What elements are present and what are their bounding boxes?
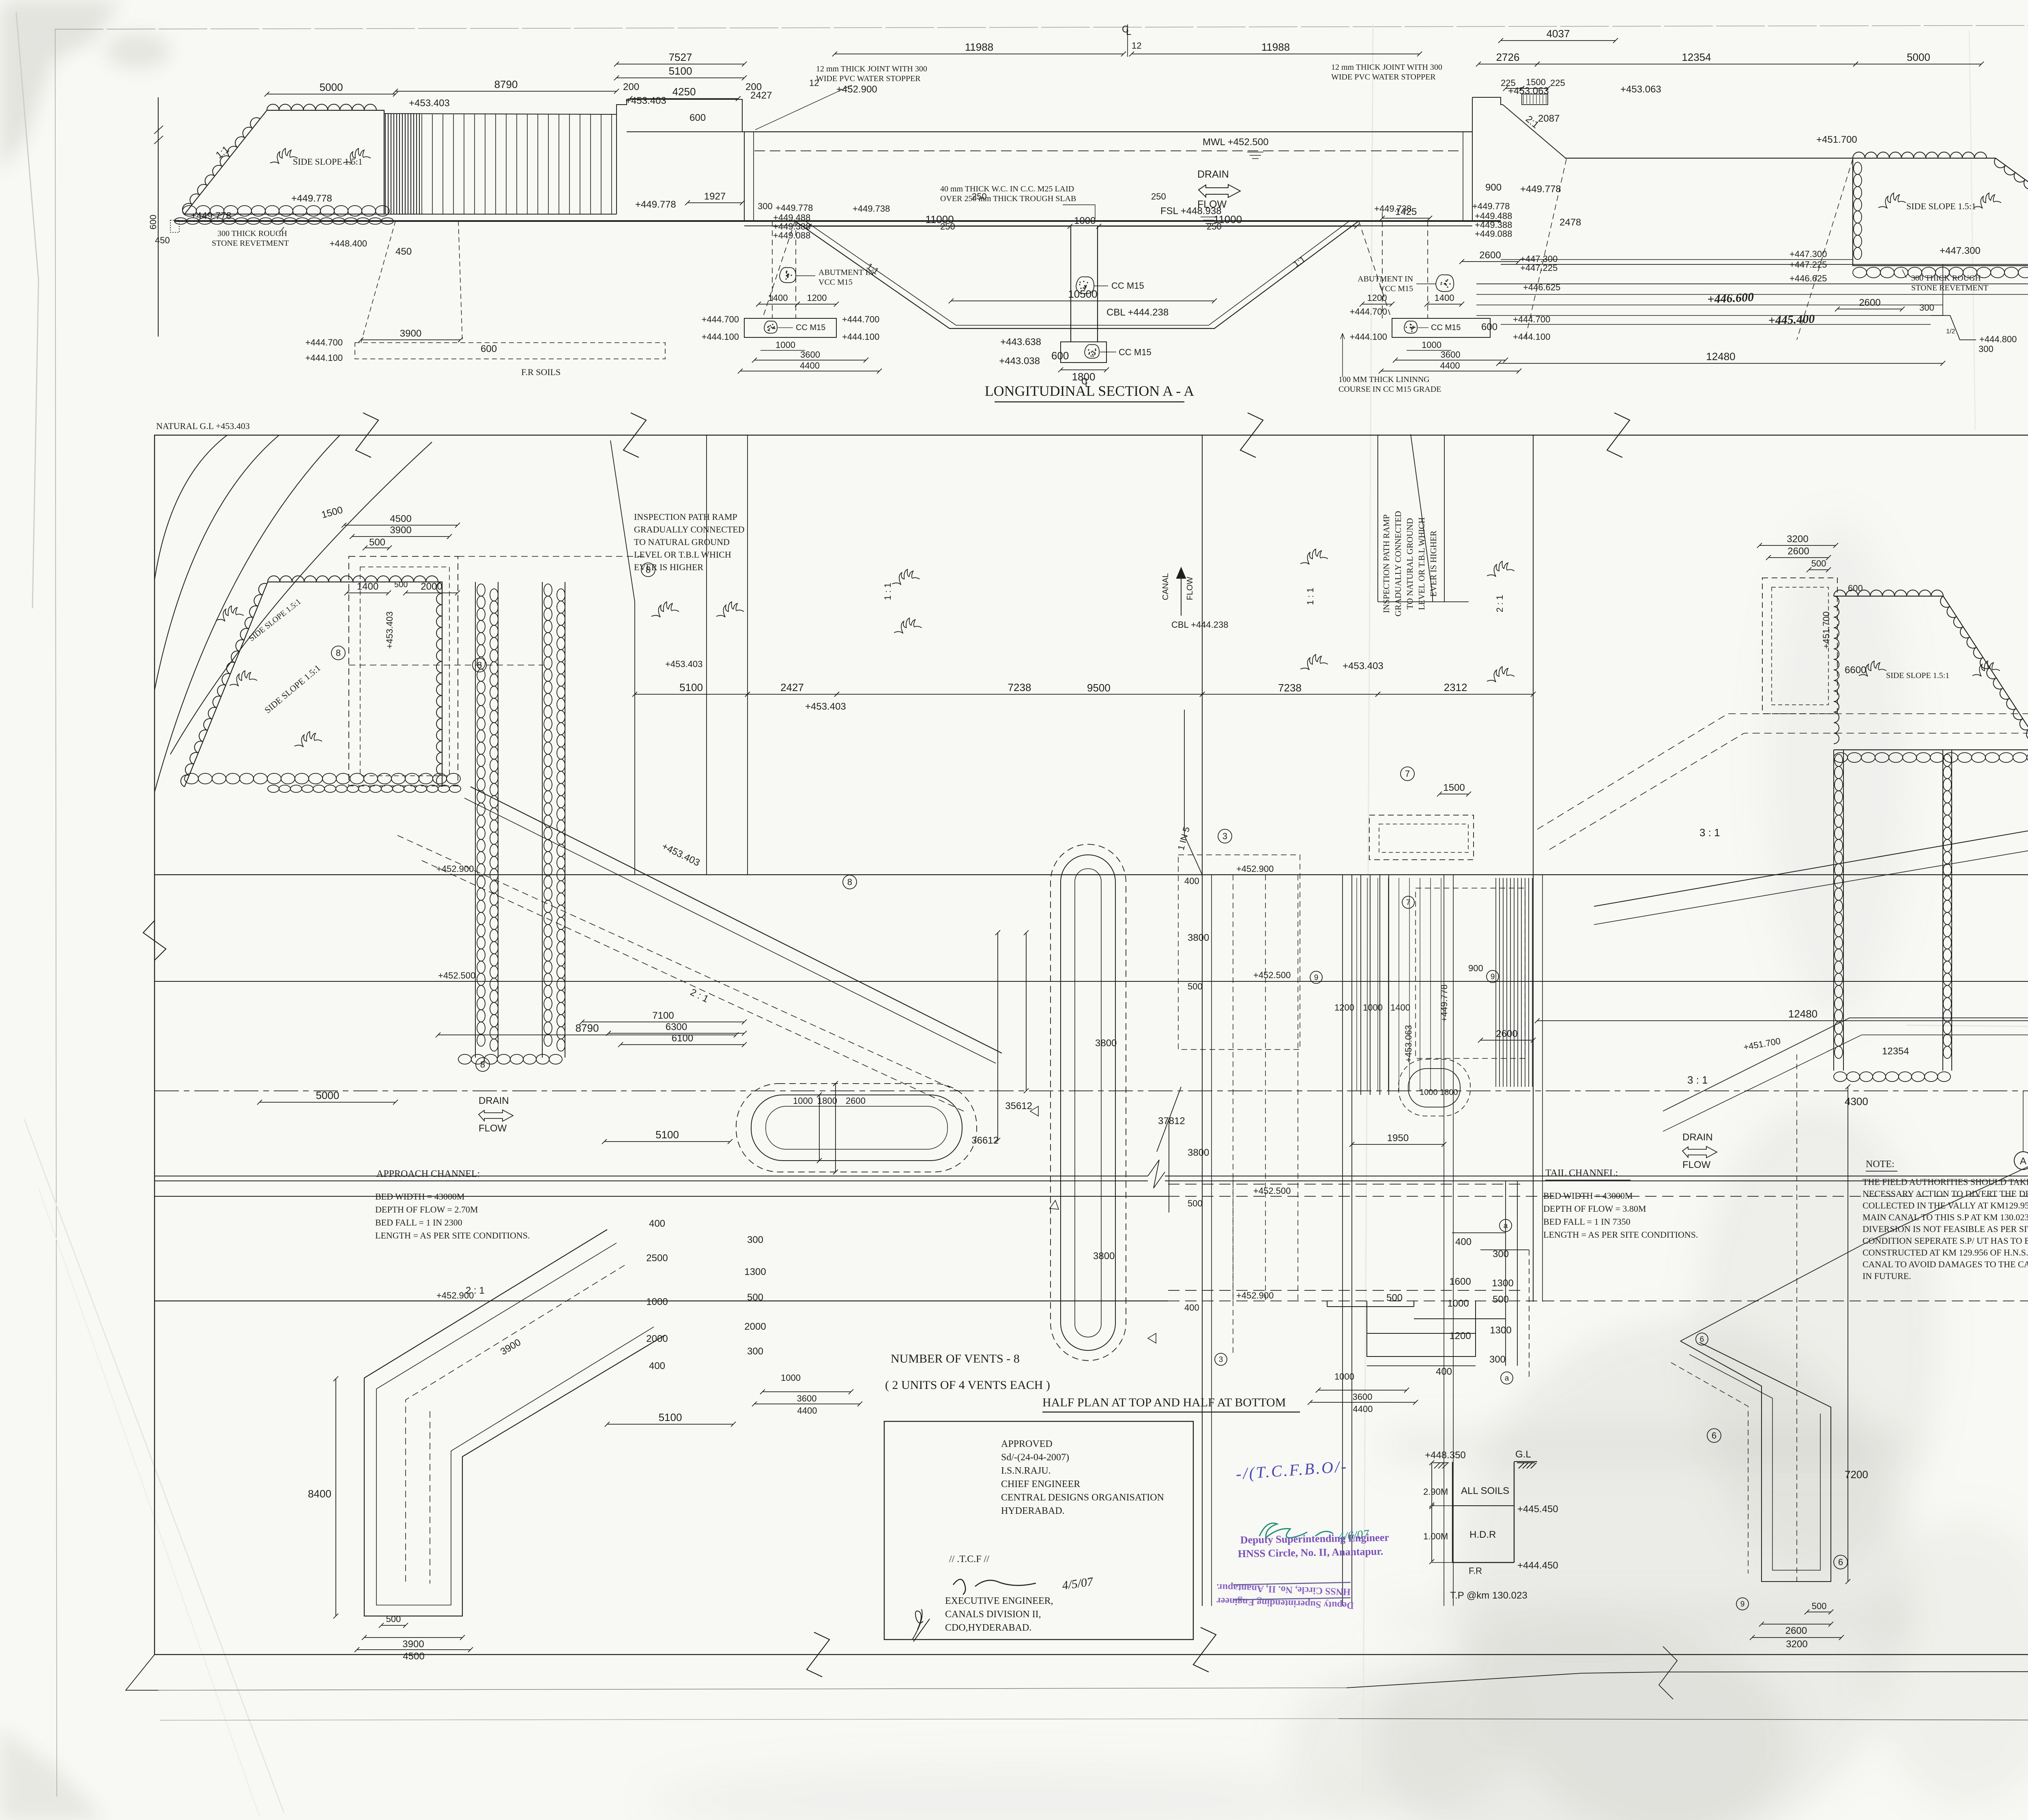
svg-text:11000: 11000 bbox=[925, 213, 954, 225]
svg-text:1000: 1000 bbox=[1074, 215, 1096, 226]
svg-text:1300: 1300 bbox=[1492, 1278, 1513, 1289]
plan dim 5000 left bbox=[260, 1102, 395, 1103]
svg-text:1200: 1200 bbox=[1334, 1002, 1354, 1013]
svg-text:6300: 6300 bbox=[666, 1022, 687, 1032]
svg-text:BED WIDTH = 43000M: BED WIDTH = 43000M bbox=[375, 1191, 464, 1202]
svg-text:1000: 1000 bbox=[776, 340, 795, 350]
svg-text:400: 400 bbox=[649, 1361, 665, 1371]
svg-text:2000: 2000 bbox=[646, 1333, 668, 1344]
svg-text:+444.700: +444.700 bbox=[702, 314, 739, 324]
svg-text:+447.225: +447.225 bbox=[1520, 263, 1558, 273]
svg-text:LENGTH = AS PER SITE CONDITION: LENGTH = AS PER SITE CONDITIONS. bbox=[375, 1230, 530, 1241]
svg-text:+452.900: +452.900 bbox=[1236, 1290, 1274, 1301]
section dim 7527 bbox=[617, 64, 744, 64]
svg-text:+452.900: +452.900 bbox=[436, 864, 474, 874]
svg-text:500: 500 bbox=[1811, 558, 1826, 569]
plan right upper revetment trapezoid bbox=[1834, 596, 2028, 750]
svg-text:6100: 6100 bbox=[672, 1033, 693, 1044]
svg-text:3600: 3600 bbox=[800, 350, 820, 360]
svg-text:COURSE IN CC M15 GRADE: COURSE IN CC M15 GRADE bbox=[1338, 385, 1441, 394]
plan right dashed box bbox=[1762, 578, 1837, 714]
svg-text:IN FUTURE.: IN FUTURE. bbox=[1863, 1271, 1911, 1281]
svg-text:2600: 2600 bbox=[1785, 1625, 1807, 1636]
svg-text:3 : 1: 3 : 1 bbox=[1687, 1074, 1708, 1086]
svg-text:1300: 1300 bbox=[1490, 1325, 1511, 1336]
svg-text:L: L bbox=[1126, 26, 1131, 37]
section left reference line bbox=[158, 97, 159, 337]
plan bottom-left wing wall bbox=[364, 1230, 665, 1616]
svg-text:MWL +452.500: MWL +452.500 bbox=[1203, 137, 1269, 148]
svg-text:400: 400 bbox=[649, 1218, 665, 1229]
section left step block bbox=[617, 99, 744, 214]
svg-text:3800: 3800 bbox=[1188, 932, 1209, 943]
svg-text:8: 8 bbox=[477, 660, 482, 670]
svg-text:CC M15: CC M15 bbox=[1431, 323, 1461, 332]
svg-text:1800: 1800 bbox=[1440, 1088, 1458, 1097]
svg-text:INSPECTION PATH RAMP: INSPECTION PATH RAMP bbox=[634, 512, 737, 522]
svg-text:1 : 1: 1 : 1 bbox=[883, 583, 893, 600]
section right toe notch bbox=[1931, 315, 1976, 340]
svg-text:EXECUTIVE ENGINEER,: EXECUTIVE ENGINEER, bbox=[945, 1596, 1053, 1606]
svg-text:CC M15: CC M15 bbox=[1111, 281, 1144, 291]
svg-text:37812: 37812 bbox=[1158, 1116, 1185, 1127]
svg-text:40 mm THICK W.C. IN C.C. M25 L: 40 mm THICK W.C. IN C.C. M25 LAID bbox=[940, 185, 1074, 193]
svg-text:1000: 1000 bbox=[1334, 1371, 1354, 1382]
svg-text:7527: 7527 bbox=[669, 51, 692, 63]
section dim 10500 bbox=[951, 300, 1214, 301]
plan left wing bottom stone chain bbox=[185, 773, 198, 784]
section left embankment revetment trapezoid bbox=[185, 110, 384, 214]
svg-text:ALL SOILS: ALL SOILS bbox=[1461, 1485, 1509, 1496]
svg-text:+449.778: +449.778 bbox=[1520, 184, 1561, 195]
svg-text:I.S.N.RAJU.: I.S.N.RAJU. bbox=[1001, 1466, 1051, 1476]
svg-text:12354: 12354 bbox=[1882, 1046, 1909, 1057]
svg-text:1400: 1400 bbox=[1435, 293, 1454, 303]
approval box bbox=[884, 1421, 1193, 1640]
svg-text:GRADUALLY CONNECTED: GRADUALLY CONNECTED bbox=[1393, 511, 1403, 616]
svg-text:500: 500 bbox=[1493, 1294, 1509, 1305]
svg-text:3200: 3200 bbox=[1786, 1639, 1807, 1650]
svg-text:600: 600 bbox=[1848, 583, 1863, 593]
svg-text:MAIN CANAL TO THIS S.P AT KM 1: MAIN CANAL TO THIS S.P AT KM 130.023.IF bbox=[1863, 1212, 2028, 1222]
svg-text:300: 300 bbox=[1979, 344, 1994, 354]
section dim 5100 bbox=[617, 77, 744, 78]
svg-text:300: 300 bbox=[1493, 1249, 1509, 1260]
svg-text:CENTRAL DESIGNS ORGANISATION: CENTRAL DESIGNS ORGANISATION bbox=[1001, 1492, 1164, 1503]
section dim 8790 bbox=[395, 91, 617, 92]
svg-text:3200: 3200 bbox=[1787, 534, 1808, 545]
section centerline mark bbox=[1127, 24, 1128, 57]
plan vertical revetment band B bbox=[542, 582, 543, 1058]
svg-text:+444.100: +444.100 bbox=[1513, 332, 1550, 342]
svg-text:BED WIDTH = 43000M: BED WIDTH = 43000M bbox=[1543, 1191, 1633, 1201]
plan horizontal line +452.500 upper bbox=[155, 981, 2028, 982]
plan right diagonal 3:1 upper bbox=[1537, 714, 2028, 829]
svg-text:9: 9 bbox=[1491, 973, 1495, 981]
svg-text:35612: 35612 bbox=[1005, 1101, 1032, 1112]
plan right horizontal pier stadium bbox=[1399, 1059, 1470, 1116]
svg-text:F.R SOILS: F.R SOILS bbox=[521, 367, 561, 377]
svg-text:DRAIN: DRAIN bbox=[1682, 1132, 1713, 1143]
svg-text:450: 450 bbox=[155, 235, 170, 245]
svg-text:450: 450 bbox=[395, 246, 412, 257]
svg-text:LEVEL OR T.B.L WHICH: LEVEL OR T.B.L WHICH bbox=[1417, 517, 1426, 610]
svg-text:2600: 2600 bbox=[1479, 250, 1501, 261]
svg-text:+444.800: +444.800 bbox=[1979, 334, 2017, 344]
svg-text:1200: 1200 bbox=[1449, 1331, 1471, 1341]
section top dims right bbox=[1478, 64, 1537, 64]
svg-text:+449.088: +449.088 bbox=[1475, 229, 1512, 239]
svg-text:1/2: 1/2 bbox=[1946, 328, 1955, 335]
svg-text:4300: 4300 bbox=[1845, 1095, 1868, 1107]
svg-text:1425: 1425 bbox=[1395, 206, 1417, 217]
svg-text:2312: 2312 bbox=[1444, 681, 1467, 693]
crease center vertical bbox=[1363, 24, 1373, 1792]
svg-text:12 mm THICK JOINT WITH 300: 12 mm THICK JOINT WITH 300 bbox=[816, 64, 927, 73]
plan right vertical revetment bands bbox=[1833, 750, 1834, 1071]
plan center trough verticals lower bbox=[1202, 875, 1203, 1606]
svg-text:+449.778: +449.778 bbox=[635, 199, 676, 210]
svg-text:900: 900 bbox=[1468, 963, 1483, 973]
svg-text:3600: 3600 bbox=[797, 1393, 817, 1404]
svg-text:1000: 1000 bbox=[1447, 1298, 1469, 1309]
svg-text:2600: 2600 bbox=[1787, 546, 1809, 557]
svg-text:1000: 1000 bbox=[1420, 1088, 1438, 1097]
section right dowel block bbox=[1522, 94, 1548, 105]
section right diag dashed bbox=[1525, 159, 1566, 340]
svg-text:400: 400 bbox=[1184, 876, 1199, 886]
svg-text:3900: 3900 bbox=[390, 525, 411, 536]
svg-text:5000: 5000 bbox=[1907, 51, 1930, 63]
svg-text:3900: 3900 bbox=[402, 1639, 424, 1650]
svg-text:G.L: G.L bbox=[1515, 1449, 1531, 1460]
svg-text:3600: 3600 bbox=[1353, 1392, 1373, 1402]
svg-text:1200: 1200 bbox=[807, 293, 827, 303]
section trough joint verticals bbox=[744, 132, 745, 221]
svg-text:3800: 3800 bbox=[1188, 1147, 1209, 1158]
svg-text:11988: 11988 bbox=[1261, 41, 1290, 53]
plan left horizontal pier stadium bbox=[736, 1084, 977, 1172]
svg-text:2500: 2500 bbox=[646, 1253, 668, 1264]
svg-text:+444.700: +444.700 bbox=[842, 314, 879, 324]
svg-text:8790: 8790 bbox=[494, 78, 518, 90]
svg-text:4400: 4400 bbox=[800, 361, 820, 371]
svg-text:SIDE SLOPE 1.5:1: SIDE SLOPE 1.5:1 bbox=[1906, 201, 1976, 211]
svg-text:2000: 2000 bbox=[744, 1321, 766, 1332]
svg-text:+448.400: +448.400 bbox=[330, 238, 367, 249]
svg-text:EVER IS HIGHER: EVER IS HIGHER bbox=[634, 562, 703, 572]
svg-text:2427: 2427 bbox=[750, 90, 772, 101]
svg-text:CONSTRUCTED AT KM 129.956 OF H: CONSTRUCTED AT KM 129.956 OF H.N.S.S. MA… bbox=[1863, 1247, 2028, 1258]
svg-text:300: 300 bbox=[758, 201, 773, 211]
svg-text:2 : 1: 2 : 1 bbox=[466, 1285, 485, 1296]
svg-text:+452.500: +452.500 bbox=[438, 970, 475, 981]
svg-text:7: 7 bbox=[1405, 769, 1410, 779]
scan shadow top-left corner bbox=[0, 0, 122, 174]
svg-text:2427: 2427 bbox=[780, 681, 804, 693]
svg-text:2.90M: 2.90M bbox=[1423, 1487, 1448, 1497]
svg-text:CC M15: CC M15 bbox=[1119, 347, 1151, 357]
svg-text:FLOW: FLOW bbox=[479, 1123, 507, 1134]
svg-text:500: 500 bbox=[386, 1614, 401, 1624]
svg-text:LENGTH = AS PER SITE CONDITION: LENGTH = AS PER SITE CONDITIONS. bbox=[1543, 1230, 1698, 1240]
svg-text:300: 300 bbox=[1489, 1354, 1506, 1365]
svg-text:BED FALL = 1 IN 7350: BED FALL = 1 IN 7350 bbox=[1543, 1217, 1631, 1227]
svg-text:300 THICK ROUGH: 300 THICK ROUGH bbox=[217, 229, 287, 238]
svg-text:LEVEL OR T.B.L WHICH: LEVEL OR T.B.L WHICH bbox=[634, 549, 731, 560]
svg-text:400: 400 bbox=[1184, 1303, 1199, 1313]
svg-text:500: 500 bbox=[1188, 1198, 1203, 1208]
plan dim row mid bbox=[635, 694, 748, 695]
svg-text:NUMBER OF VENTS - 8: NUMBER OF VENTS - 8 bbox=[891, 1352, 1020, 1365]
svg-text:+445.450: +445.450 bbox=[1517, 1504, 1558, 1515]
plan dim 8790 bbox=[438, 1034, 736, 1035]
svg-text:7238: 7238 bbox=[1278, 682, 1302, 694]
svg-text:225: 225 bbox=[1550, 78, 1565, 88]
svg-text:+444.450: +444.450 bbox=[1517, 1560, 1558, 1571]
svg-text:+444.700: +444.700 bbox=[1350, 307, 1387, 317]
svg-text:GRADUALLY CONNECTED: GRADUALLY CONNECTED bbox=[634, 524, 745, 534]
svg-text:1000: 1000 bbox=[646, 1296, 668, 1307]
svg-text:1927: 1927 bbox=[704, 191, 726, 202]
svg-text:1.00M: 1.00M bbox=[1423, 1531, 1448, 1541]
svg-text:+453.063: +453.063 bbox=[1403, 1025, 1414, 1062]
plan abutment hatch band bbox=[1495, 878, 1496, 1087]
plan right diagonal wall lower bbox=[1594, 815, 2028, 906]
svg-text:+453.403: +453.403 bbox=[805, 701, 846, 712]
svg-text:2600: 2600 bbox=[1496, 1028, 1517, 1039]
plan bottom center return wall footing steps bbox=[1327, 1301, 1328, 1307]
svg-text:500: 500 bbox=[747, 1292, 763, 1303]
svg-text:600: 600 bbox=[690, 112, 706, 123]
svg-text:+449.778: +449.778 bbox=[191, 210, 232, 221]
svg-text:+453.063: +453.063 bbox=[1620, 84, 1661, 95]
svg-text:2600: 2600 bbox=[1859, 297, 1880, 308]
section dim 11000 left bbox=[809, 226, 1070, 227]
svg-text:+449.778: +449.778 bbox=[1472, 201, 1510, 211]
svg-text:APPROVED: APPROVED bbox=[1001, 1439, 1053, 1449]
svg-text:2087: 2087 bbox=[1538, 113, 1560, 124]
svg-text:+447.300: +447.300 bbox=[1790, 249, 1827, 259]
plan revetment bottom chain bbox=[458, 1054, 471, 1064]
svg-text:+444.100: +444.100 bbox=[1350, 332, 1387, 342]
svg-text:2 : 1: 2 : 1 bbox=[1495, 595, 1505, 612]
svg-text:CANAL: CANAL bbox=[1161, 573, 1170, 600]
plan break zig in pier column bbox=[1157, 1087, 1181, 1213]
svg-text:5100: 5100 bbox=[669, 65, 692, 77]
section right level line +451.700 bbox=[1565, 158, 1853, 159]
svg-text:200: 200 bbox=[623, 82, 639, 92]
svg-text:CC M15: CC M15 bbox=[796, 323, 825, 332]
svg-text:CANALS DIVISION II,: CANALS DIVISION II, bbox=[945, 1609, 1041, 1620]
svg-text:CBL +444.238: CBL +444.238 bbox=[1106, 307, 1169, 318]
section pier footing bbox=[1061, 342, 1106, 363]
section right embankment revetment bbox=[1853, 158, 2028, 266]
svg-text:3: 3 bbox=[1219, 1356, 1223, 1364]
section dim 11988 right bbox=[1132, 54, 1420, 54]
svg-text:7200: 7200 bbox=[1845, 1468, 1868, 1481]
svg-text:300 THICK ROUGH: 300 THICK ROUGH bbox=[1911, 274, 1981, 283]
svg-text:2726: 2726 bbox=[1496, 51, 1520, 63]
svg-text:T.P @km 130.023: T.P @km 130.023 bbox=[1450, 1590, 1527, 1601]
svg-text:+446.625: +446.625 bbox=[1523, 282, 1560, 292]
svg-text:TO NATURAL GROUND: TO NATURAL GROUND bbox=[634, 537, 730, 547]
svg-text:EVER IS HIGHER: EVER IS HIGHER bbox=[1429, 530, 1438, 597]
svg-text:12480: 12480 bbox=[1788, 1008, 1817, 1020]
svg-text:+451.700: +451.700 bbox=[1821, 612, 1831, 649]
svg-text:3900: 3900 bbox=[400, 328, 421, 339]
plan A marker bbox=[2014, 1152, 2028, 1170]
svg-text:900: 900 bbox=[1485, 182, 1502, 193]
svg-text:4400: 4400 bbox=[1353, 1404, 1373, 1414]
section dim 11000 right bbox=[1099, 226, 1357, 227]
svg-text:+444.100: +444.100 bbox=[842, 332, 879, 342]
svg-text:DRAIN: DRAIN bbox=[479, 1095, 509, 1106]
svg-text:NECESSARY ACTION TO DIVERT THE: NECESSARY ACTION TO DIVERT THE DRAIN WAT… bbox=[1863, 1189, 2028, 1199]
svg-text:11988: 11988 bbox=[965, 41, 993, 53]
svg-text:600: 600 bbox=[481, 343, 497, 354]
plan bottom-right wing wall bbox=[1680, 1341, 1831, 1582]
svg-text:TO NATURAL GROUND: TO NATURAL GROUND bbox=[1405, 518, 1415, 609]
svg-text:+443.038: +443.038 bbox=[999, 356, 1040, 367]
svg-text:1400: 1400 bbox=[1390, 1002, 1410, 1013]
svg-text:1000: 1000 bbox=[1422, 340, 1442, 350]
svg-text:250: 250 bbox=[972, 191, 987, 202]
svg-text:ABUTMENT IN: ABUTMENT IN bbox=[1358, 275, 1413, 283]
svg-text:500: 500 bbox=[1386, 1292, 1403, 1303]
svg-text:12: 12 bbox=[1132, 41, 1141, 51]
crease horizontal right bbox=[1906, 1025, 2028, 1032]
svg-text:4400: 4400 bbox=[1440, 361, 1460, 371]
svg-text:1500: 1500 bbox=[1443, 782, 1465, 793]
section dim 12480 bbox=[1499, 363, 1943, 364]
green signature bbox=[1259, 1523, 1333, 1538]
svg-text:1400: 1400 bbox=[768, 293, 788, 303]
svg-text:500: 500 bbox=[369, 537, 385, 548]
plan dims 1950 bbox=[1352, 1144, 1444, 1145]
svg-text:BED FALL = 1 IN 2300: BED FALL = 1 IN 2300 bbox=[375, 1217, 462, 1228]
section main slab line bbox=[174, 220, 1501, 222]
svg-text:225: 225 bbox=[1501, 78, 1516, 88]
svg-text:a: a bbox=[1504, 1222, 1508, 1230]
svg-text:Sd/-(24-04-2007): Sd/-(24-04-2007) bbox=[1001, 1452, 1069, 1463]
svg-text:9: 9 bbox=[1314, 974, 1319, 982]
svg-text:3800: 3800 bbox=[1093, 1251, 1115, 1262]
svg-text:INSPECTION PATH RAMP: INSPECTION PATH RAMP bbox=[1381, 514, 1391, 613]
svg-text:+451.700: +451.700 bbox=[1816, 134, 1857, 145]
svg-text:7100: 7100 bbox=[652, 1010, 674, 1021]
svg-text:WIDE PVC WATER STOPPER: WIDE PVC WATER STOPPER bbox=[816, 74, 921, 83]
svg-text:3800: 3800 bbox=[1095, 1038, 1117, 1049]
svg-text:DEPTH OF FLOW = 2.70M: DEPTH OF FLOW = 2.70M bbox=[375, 1204, 478, 1215]
section dim 4037 bbox=[1501, 40, 1616, 41]
svg-text:12480: 12480 bbox=[1706, 350, 1735, 363]
svg-text:1500: 1500 bbox=[1526, 77, 1546, 87]
plan big pier stadium bbox=[1051, 844, 1126, 1361]
section left abutment footing bbox=[744, 318, 836, 337]
svg-text:400: 400 bbox=[1436, 1366, 1452, 1377]
svg-text:1800: 1800 bbox=[817, 1096, 837, 1106]
svg-text:4400: 4400 bbox=[797, 1406, 817, 1416]
svg-text:+444.100: +444.100 bbox=[702, 332, 739, 342]
svg-text:9500: 9500 bbox=[1087, 682, 1111, 694]
svg-text:H.D.R: H.D.R bbox=[1469, 1529, 1496, 1540]
svg-text:+447.300: +447.300 bbox=[1940, 245, 1981, 256]
svg-text:1200: 1200 bbox=[1367, 293, 1387, 303]
svg-text:1000: 1000 bbox=[781, 1373, 801, 1383]
plan left dims cluster bbox=[344, 525, 458, 526]
svg-text:CANAL TO AVOID DAMAGES TO THE: CANAL TO AVOID DAMAGES TO THE CANAL BUND… bbox=[1863, 1259, 2028, 1269]
svg-text:500: 500 bbox=[1812, 1601, 1827, 1611]
section dim 4250 bbox=[630, 98, 738, 99]
svg-text:SIDE SLOPE 1.5:1: SIDE SLOPE 1.5:1 bbox=[1886, 671, 1949, 680]
svg-text:2478: 2478 bbox=[1560, 217, 1581, 228]
svg-text:5100: 5100 bbox=[659, 1411, 682, 1423]
plan dims 7100/6300/6100 bbox=[582, 1022, 744, 1022]
section left abutment bbox=[772, 221, 773, 318]
svg-text:TAIL CHANNEL:: TAIL CHANNEL: bbox=[1545, 1168, 1618, 1178]
svg-text:250: 250 bbox=[1151, 191, 1166, 202]
plan vertical revetment band A bbox=[475, 582, 476, 1058]
svg-text:4250: 4250 bbox=[672, 86, 696, 98]
svg-text:+452.500: +452.500 bbox=[1253, 1186, 1291, 1196]
svg-text:CHIEF ENGINEER: CHIEF ENGINEER bbox=[1001, 1479, 1080, 1489]
sheet border faint bbox=[55, 24, 2028, 29]
svg-text:+453.403: +453.403 bbox=[665, 659, 702, 669]
svg-text:+445.400: +445.400 bbox=[1768, 312, 1815, 327]
svg-text:CBL +444.238: CBL +444.238 bbox=[1171, 620, 1228, 630]
svg-text:WIDE PVC WATER STOPPER: WIDE PVC WATER STOPPER bbox=[1331, 73, 1436, 82]
svg-text:+448.350: +448.350 bbox=[1425, 1450, 1466, 1461]
plan centre dash-dot line bbox=[155, 1090, 2028, 1091]
section MWL dashed line bbox=[754, 150, 1462, 151]
svg-text:a: a bbox=[1505, 1374, 1509, 1383]
svg-text:12354: 12354 bbox=[1682, 51, 1711, 63]
svg-text:600: 600 bbox=[1051, 350, 1069, 362]
svg-text:+453.403: +453.403 bbox=[409, 98, 450, 109]
svg-text:FLOW: FLOW bbox=[1682, 1159, 1711, 1170]
section left footing dashed wide bbox=[355, 343, 665, 359]
plan horizontal line +452.500 lower bbox=[155, 1196, 1168, 1197]
section right abutment footing bbox=[1392, 318, 1490, 337]
svg-text:12 mm THICK JOINT WITH 300: 12 mm THICK JOINT WITH 300 bbox=[1331, 63, 1442, 72]
section right revetment stone chain bbox=[1853, 267, 1867, 278]
svg-text:4500: 4500 bbox=[403, 1651, 424, 1662]
svg-text:1300: 1300 bbox=[744, 1266, 766, 1277]
svg-text:1950: 1950 bbox=[1387, 1133, 1409, 1144]
svg-text:500: 500 bbox=[1188, 981, 1203, 992]
svg-text:( 2 UNITS OF 4 VENTS EACH ): ( 2 UNITS OF 4 VENTS EACH ) bbox=[885, 1378, 1050, 1392]
svg-text:300: 300 bbox=[747, 1346, 763, 1357]
section channel trapezoid bbox=[795, 221, 1359, 328]
svg-text:APPROACH CHANNEL:: APPROACH CHANNEL: bbox=[376, 1169, 480, 1179]
svg-text:VCC M15: VCC M15 bbox=[819, 278, 853, 287]
svg-text:3: 3 bbox=[1222, 831, 1227, 841]
svg-text:5000: 5000 bbox=[320, 81, 343, 93]
svg-text:+452.500: +452.500 bbox=[1253, 970, 1291, 980]
section dim 1927 bbox=[687, 202, 742, 203]
svg-text:1000: 1000 bbox=[1363, 1002, 1383, 1013]
plan horizontal line +452.900 lower bbox=[155, 1301, 1168, 1301]
section dim 11988 left bbox=[835, 54, 1124, 54]
svg-text:6600: 6600 bbox=[1845, 665, 1866, 676]
svg-text:LONGITUDINAL SECTION A - A: LONGITUDINAL SECTION A - A bbox=[985, 383, 1194, 399]
bottom right border lines bbox=[1347, 1672, 2028, 1688]
section center pier bbox=[1070, 226, 1071, 342]
svg-text:FLOW: FLOW bbox=[1186, 577, 1194, 600]
svg-text:5100: 5100 bbox=[679, 681, 703, 693]
svg-text:1600: 1600 bbox=[1449, 1276, 1471, 1287]
